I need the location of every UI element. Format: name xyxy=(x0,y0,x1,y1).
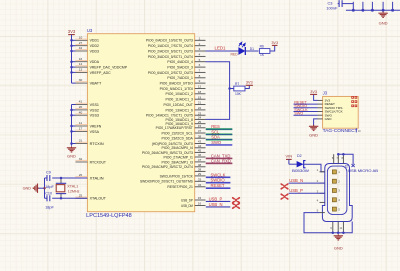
svg-text:C9: C9 xyxy=(46,171,51,175)
net label SWCLK wire xyxy=(206,172,231,177)
left pin 17 VSSA xyxy=(76,127,100,134)
svg-text:VREFP_ADC: VREFP_ADC xyxy=(90,70,111,75)
wire/net SWO tag xyxy=(294,112,318,116)
svg-text:29: 29 xyxy=(198,172,202,176)
svg-text:J3: J3 xyxy=(323,90,328,95)
net label USB_P wire xyxy=(206,196,231,201)
svg-text:47: 47 xyxy=(198,158,202,162)
svg-text:GND: GND xyxy=(309,133,318,138)
svg-text:48: 48 xyxy=(198,163,202,167)
net label CAN_TXD wire xyxy=(206,153,233,158)
usb pins and pads xyxy=(317,168,341,213)
svg-text:PIO0_11/ADC1_3: PIO0_11/ADC1_3 xyxy=(165,98,192,102)
svg-text:RED: RED xyxy=(231,53,239,57)
svg-text:GND: GND xyxy=(23,187,32,191)
svg-text:100nF: 100nF xyxy=(326,5,338,10)
svg-text:20: 20 xyxy=(79,105,83,109)
right pin 28 xyxy=(195,168,206,172)
right pin 16 USB_DM xyxy=(181,202,205,208)
svg-text:37: 37 xyxy=(198,129,202,133)
wire d2-usb xyxy=(304,164,325,172)
svg-text:PIO0_1/ADC0_7/SCT0_OUT4: PIO0_1/ADC0_7/SCT0_OUT4 xyxy=(148,44,193,48)
svg-text:PIO0_17/WAKEUP/TRST: PIO0_17/WAKEUP/TRST xyxy=(156,126,194,130)
svg-text:B0530W: B0530W xyxy=(292,169,310,173)
left pin 30 VBATT xyxy=(76,78,102,85)
svg-text:15: 15 xyxy=(198,124,202,128)
resistor R7 xyxy=(234,82,245,96)
left pin 11 VREFN xyxy=(76,121,102,128)
svg-text:3V3: 3V3 xyxy=(310,90,317,94)
svg-text:32: 32 xyxy=(79,157,83,161)
net label SWO wire xyxy=(206,140,233,145)
power 3V3 tag xyxy=(310,90,317,100)
right pin 7 PIO0_6/ADC0_2/SCT2_OUT3 xyxy=(148,69,206,75)
ground GND tag xyxy=(309,125,318,138)
wire VSS gnd rail xyxy=(70,105,75,146)
power 3V3 left xyxy=(68,29,76,35)
svg-text:LED1: LED1 xyxy=(215,46,227,51)
IC U3 LPC1549 body xyxy=(86,28,195,219)
wire LED1 net xyxy=(206,46,239,51)
ground GND decoupling xyxy=(378,12,387,26)
svg-text:11: 11 xyxy=(339,226,342,230)
svg-text:VBATT: VBATT xyxy=(90,81,102,86)
svg-text:RTCXOUT: RTCXOUT xyxy=(90,159,107,164)
svg-text:3V3: 3V3 xyxy=(246,81,253,85)
wire gnd tag xyxy=(314,119,318,126)
right pin 4 PIO0_3/ADC0_5/SCT1_OUT4 xyxy=(148,53,206,59)
svg-text:USB_P: USB_P xyxy=(289,188,303,193)
net label CAN_RXD wire xyxy=(206,158,233,163)
svg-text:USB_N: USB_N xyxy=(209,202,223,207)
wire decoupling rail xyxy=(346,2,400,12)
power 3V3 r7 xyxy=(246,81,253,86)
no-ERC usb_p xyxy=(281,194,288,199)
right pin 46 PIO0_27/ACMP_I1 xyxy=(164,153,206,159)
right pin 43 (HD)PIO0_24/SCT0_OUT0 xyxy=(152,140,206,146)
right pin 24 PIO0_15/ADC1_8 xyxy=(165,116,205,122)
left pin 41 VSS1 xyxy=(76,100,99,107)
svg-text:10K: 10K xyxy=(235,92,242,96)
power 3V3 led xyxy=(271,41,278,46)
svg-text:VSS3: VSS3 xyxy=(90,113,99,118)
svg-text:PIO0_0/ADC0_10/SCT0_OUT3: PIO0_0/ADC0_10/SCT0_OUT3 xyxy=(146,39,193,43)
svg-text:10: 10 xyxy=(79,35,83,39)
svg-text:VDD1: VDD1 xyxy=(90,38,99,43)
svg-text:LPC1549-LQFP48: LPC1549-LQFP48 xyxy=(86,213,132,219)
right pin 29 SWCLK/PIO0_19/TCK xyxy=(160,172,206,178)
left pin 26 XTALIN xyxy=(76,173,104,180)
svg-text:TAG-CONNECT: TAG-CONNECT xyxy=(323,128,358,133)
svg-text:PIO0_8/ADC0_0/TDO: PIO0_8/ADC0_0/TDO xyxy=(160,82,193,86)
connector J3 TAG-CONNECT body xyxy=(318,90,359,133)
wire gnd stub crystal xyxy=(43,178,45,198)
wire r6-3v3 xyxy=(270,45,275,51)
svg-text:26: 26 xyxy=(79,173,83,177)
left pin 10 VDD1 xyxy=(76,35,99,42)
crystal XTAL1 xyxy=(56,177,80,200)
right pin 22 PIO0_13/ADC1_6 xyxy=(165,106,205,112)
right pin 45 PIO0_26/ACMP0_I5/SCT3_OUT3 xyxy=(142,149,206,155)
svg-text:41: 41 xyxy=(79,100,83,104)
svg-text:17: 17 xyxy=(79,127,83,131)
svg-text:16: 16 xyxy=(198,202,202,206)
svg-text:SDA: SDA xyxy=(211,135,220,140)
svg-text:3V3: 3V3 xyxy=(271,41,278,45)
left pin 27 VDD2 xyxy=(76,41,99,48)
svg-text:PIO0_25/ACMP0_I4: PIO0_25/ACMP0_I4 xyxy=(162,146,193,150)
usb shield bottom xyxy=(304,213,352,234)
svg-text:PIO0_29/ACMP2_I5/SCT2_OUT4: PIO0_29/ACMP2_I5/SCT2_OUT4 xyxy=(142,165,193,169)
svg-text:PIO0_3/ADC0_5/SCT1_OUT4: PIO0_3/ADC0_5/SCT1_OUT4 xyxy=(148,55,193,59)
svg-text:PIO0_5/ADC0_3: PIO0_5/ADC0_3 xyxy=(167,66,192,70)
ground GND left rail xyxy=(67,146,76,158)
svg-text:18pF: 18pF xyxy=(45,205,54,209)
svg-text:CAN_RXD: CAN_RXD xyxy=(211,158,231,163)
svg-text:PIO0_9/ADC1_1/TDI: PIO0_9/ADC1_1/TDI xyxy=(160,87,193,91)
svg-text:SWDIO: SWDIO xyxy=(211,178,226,183)
svg-text:16: 16 xyxy=(79,57,83,61)
right pin 25 PIO0_16/ADC1_9 xyxy=(165,120,205,126)
right pin 23 PIO0_14/ADC1_7/SCT1_OUT5 xyxy=(146,111,206,117)
svg-text:PIO0_28/ACMP1_I3: PIO0_28/ACMP1_I3 xyxy=(162,160,193,164)
right pin 21 PIO0_12/DAC_OUT xyxy=(164,101,206,107)
capacitor C3 xyxy=(326,0,353,10)
svg-text:22: 22 xyxy=(198,106,202,110)
svg-text:XTAL1: XTAL1 xyxy=(67,185,78,189)
net label USB_N wire xyxy=(206,202,231,207)
left pin 16 VDDA xyxy=(76,57,100,64)
wire pio0_4 loop xyxy=(206,62,231,120)
svg-text:VIN: VIN xyxy=(285,153,292,158)
right pin 38 PIO0_23/I2C0_SDA xyxy=(162,134,206,140)
svg-text:25: 25 xyxy=(79,193,83,197)
left pin 14 VREFP_DAC_VDDCMP xyxy=(76,62,128,69)
svg-text:3V3: 3V3 xyxy=(68,29,76,34)
power VIN xyxy=(285,153,292,164)
diode D2 xyxy=(292,154,310,173)
svg-text:PIO0_26/ACMP0_I5/SCT3_OUT3: PIO0_26/ACMP0_I5/SCT3_OUT3 xyxy=(142,151,193,155)
usb shield top xyxy=(332,153,355,167)
svg-text:31: 31 xyxy=(79,139,83,143)
svg-text:27: 27 xyxy=(79,41,83,45)
right pin 15 PIO0_17/WAKEUP/TRST xyxy=(156,124,206,130)
ground GND usb xyxy=(334,234,343,250)
svg-text:SWCLK: SWCLK xyxy=(211,172,226,177)
right pin 18 PIO0_10/ADC1_2 xyxy=(165,90,205,96)
svg-text:VSSA: VSSA xyxy=(90,129,100,134)
svg-text:PIO0_22/I2C0_SCL: PIO0_22/I2C0_SCL xyxy=(162,131,193,135)
svg-text:USB_DM: USB_DM xyxy=(181,204,193,208)
svg-text:VDDA: VDDA xyxy=(90,59,100,64)
svg-text:VREFP_DAC_VDDCMP: VREFP_DAC_VDDCMP xyxy=(90,65,128,70)
led D1 xyxy=(231,42,255,56)
right pin 8 PIO0_7/ADC0_1 xyxy=(167,74,205,80)
svg-text:PIO0_7/ADC0_1: PIO0_7/ADC0_1 xyxy=(167,76,192,80)
wire XTALOUT xyxy=(45,197,88,199)
svg-text:VDD2: VDD2 xyxy=(90,43,99,48)
svg-text:14: 14 xyxy=(79,62,83,66)
svg-text:11: 11 xyxy=(79,121,82,125)
svg-text:28: 28 xyxy=(198,168,202,172)
no-ERC marker USB_P xyxy=(233,198,240,203)
svg-text:13: 13 xyxy=(79,68,83,72)
right pin 33 SWDIO/PIO0_20/SCT1_OUT8/TMS xyxy=(140,177,206,183)
wire/net RESET tag xyxy=(294,100,318,104)
left pin 42 VDD3 xyxy=(76,46,99,53)
wire r7-3v3 xyxy=(245,85,249,88)
right pin 19 PIO0_11/ADC1_3 xyxy=(165,95,205,101)
svg-text:RTCXIN: RTCXIN xyxy=(90,141,104,146)
right pin 2 PIO0_1/ADC0_7/SCT0_OUT4 xyxy=(148,42,206,48)
svg-text:40: 40 xyxy=(79,110,83,114)
right pin 47 PIO0_28/ACMP1_I3 xyxy=(162,158,206,164)
svg-text:12: 12 xyxy=(198,85,202,89)
svg-text:42: 42 xyxy=(79,46,83,50)
svg-text:PIO0_13/ADC1_6: PIO0_13/ADC1_6 xyxy=(165,108,192,112)
net label RES wire xyxy=(206,124,233,129)
svg-text:SWO: SWO xyxy=(211,140,222,145)
capacitor C9 xyxy=(45,171,54,190)
left pin 13 VREFP_ADC xyxy=(76,68,111,75)
right pin 34 RESET/PIO0_21 xyxy=(167,183,205,189)
capacitor C10 xyxy=(45,192,54,210)
svg-text:USB MICRO AB: USB MICRO AB xyxy=(348,168,378,173)
svg-text:45: 45 xyxy=(198,149,202,153)
svg-text:19: 19 xyxy=(198,95,202,99)
resistor R6 xyxy=(259,44,270,56)
right pin 5 PIO0_4/ADC0_4 xyxy=(167,58,205,64)
left pin 40 VSS3 xyxy=(76,110,99,117)
no-ERC usb_n xyxy=(281,184,288,189)
svg-text:D2: D2 xyxy=(297,154,302,158)
net label RESET wire xyxy=(206,183,231,188)
net label SCL wire xyxy=(206,129,233,134)
svg-text:34: 34 xyxy=(198,183,202,187)
svg-text:46: 46 xyxy=(198,153,202,157)
svg-text:PIO0_6/ADC0_2/SCT2_OUT3: PIO0_6/ADC0_2/SCT2_OUT3 xyxy=(148,71,193,75)
right pin 12 PIO0_9/ADC1_1/TDI xyxy=(160,85,206,91)
svg-text:30: 30 xyxy=(79,78,83,82)
wire/net SWCLK tag xyxy=(294,108,318,112)
svg-text:PIO0_23/I2C0_SDA: PIO0_23/I2C0_SDA xyxy=(162,137,194,141)
svg-text:U3: U3 xyxy=(87,28,93,33)
svg-text:44: 44 xyxy=(198,144,202,148)
wire vin-d2 xyxy=(289,163,297,165)
tag-connect pin10 stub xyxy=(356,128,361,133)
right pin 1 PIO0_0/ADC0_10/SCT0_OUT3 xyxy=(146,36,206,42)
svg-text:VDD3: VDD3 xyxy=(90,48,99,53)
svg-text:SWO: SWO xyxy=(294,112,303,116)
left pin 20 VSS2 xyxy=(76,105,99,112)
left pin 32 RTCXOUT xyxy=(76,157,107,164)
svg-text:21: 21 xyxy=(198,101,202,105)
no-ERC marker USB_N xyxy=(233,203,240,208)
svg-text:PIO0_27/ACMP_I1: PIO0_27/ACMP_I1 xyxy=(164,155,193,159)
svg-text:XTALIN: XTALIN xyxy=(90,175,104,180)
svg-text:GND: GND xyxy=(379,21,388,26)
wire usb_n xyxy=(289,178,325,183)
svg-text:USB_N: USB_N xyxy=(289,178,303,183)
svg-text:GND: GND xyxy=(67,153,76,158)
right pin 9 PIO0_8/ADC0_0/TDO xyxy=(160,79,206,85)
svg-text:VREFN: VREFN xyxy=(90,123,102,128)
svg-text:VSS2: VSS2 xyxy=(90,107,99,112)
right pin 48 PIO0_29/ACMP2_I5/SCT2_OUT4 xyxy=(142,163,206,169)
right pin 44 PIO0_25/ACMP0_I4 xyxy=(162,144,206,150)
connector J2 usb shell xyxy=(322,164,378,222)
svg-text:18: 18 xyxy=(198,90,202,94)
right pin 3 PIO0_2/ADC0_6/SCT1_OUT3 xyxy=(148,47,206,53)
svg-text:VSS1: VSS1 xyxy=(90,102,99,107)
svg-text:18pF: 18pF xyxy=(45,185,54,189)
right pin 6 PIO0_5/ADC0_3 xyxy=(167,63,205,69)
svg-text:RESET: RESET xyxy=(211,183,225,188)
svg-text:12MHz: 12MHz xyxy=(68,190,80,194)
tag-connect pads xyxy=(351,96,357,107)
left pin 31 RTCXIN xyxy=(76,139,104,146)
svg-text:R6: R6 xyxy=(260,44,264,48)
svg-text:USB_DP: USB_DP xyxy=(181,198,193,202)
svg-text:C10: C10 xyxy=(45,192,52,196)
svg-text:38: 38 xyxy=(198,134,202,138)
left pin 25 XTALOUT xyxy=(76,193,107,200)
svg-text:USB_P: USB_P xyxy=(209,196,223,201)
ground GND crystal xyxy=(23,184,45,193)
svg-text:SWCLK/PIO0_19/TCK: SWCLK/PIO0_19/TCK xyxy=(160,174,194,178)
svg-text:15: 15 xyxy=(198,196,202,200)
wire led-r6 xyxy=(245,50,258,52)
svg-text:PIO0_2/ADC0_6/SCT1_OUT3: PIO0_2/ADC0_6/SCT1_OUT3 xyxy=(148,49,193,53)
svg-text:SWDIO/PIO0_20/SCT1_OUT8/TMS: SWDIO/PIO0_20/SCT1_OUT8/TMS xyxy=(140,180,193,184)
svg-text:XTALOUT: XTALOUT xyxy=(90,196,107,201)
svg-text:PIO0_12/DAC_OUT: PIO0_12/DAC_OUT xyxy=(164,103,194,107)
wire usb_p xyxy=(289,188,325,193)
wire/net SWDIO tag xyxy=(294,104,318,108)
wire XTALIN xyxy=(45,177,88,179)
wire r7 branch xyxy=(230,88,234,90)
right pin 15 USB_DP xyxy=(181,196,205,202)
svg-text:GND: GND xyxy=(334,245,343,250)
right pin 37 PIO0_22/I2C0_SCL xyxy=(162,129,206,135)
svg-text:PIO0_4/ADC0_4: PIO0_4/ADC0_4 xyxy=(167,60,192,64)
net label SWDIO wire xyxy=(206,178,231,183)
svg-text:RESET/PIO0_21: RESET/PIO0_21 xyxy=(167,185,192,189)
svg-text:PIO0_10/ADC1_2: PIO0_10/ADC1_2 xyxy=(165,92,192,96)
wire 3V3 rail xyxy=(70,35,75,84)
svg-text:GND: GND xyxy=(325,117,333,121)
svg-text:33: 33 xyxy=(198,177,202,181)
net label SDA wire xyxy=(206,135,233,140)
svg-text:R7: R7 xyxy=(235,82,239,86)
